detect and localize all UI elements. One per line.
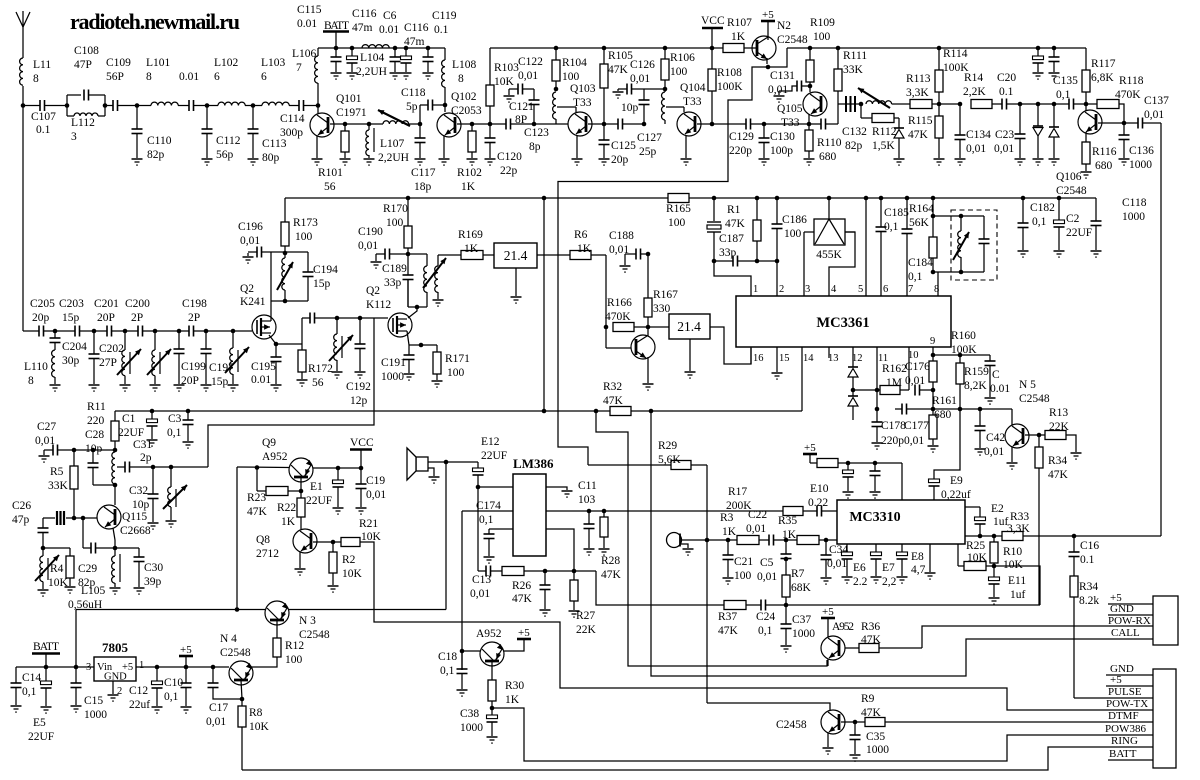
node Q105 collector (808, 84, 813, 89)
ground R161 (928, 445, 939, 447)
svg-text:C186: C186 (782, 214, 807, 226)
svg-text:1000: 1000 (84, 709, 107, 721)
svg-text:C190: C190 (358, 226, 383, 238)
dashed box quad tank (951, 210, 997, 280)
capacitor C137 (1124, 122, 1138, 124)
svg-text:47K: 47K (608, 64, 629, 76)
ground mixer transistor (643, 383, 654, 385)
ground E11 (989, 597, 1000, 599)
wire Q104 emitter to ground (685, 135, 687, 158)
svg-text:L101: L101 (146, 57, 171, 69)
node source (419, 343, 424, 348)
svg-text:0,01: 0,01 (206, 716, 226, 728)
svg-text:1,5K: 1,5K (872, 140, 895, 152)
node C42 (978, 407, 983, 412)
ground C 0.01 (985, 397, 996, 399)
node K112 drain (415, 305, 420, 310)
svg-text:0,1: 0,1 (167, 427, 182, 439)
resistor R172 (301, 318, 303, 350)
svg-text:0,22uf: 0,22uf (941, 489, 971, 501)
wire y261 (714, 260, 733, 262)
node C37 (784, 603, 789, 608)
transistor Q9 (289, 458, 313, 482)
svg-text:R17: R17 (728, 486, 747, 498)
svg-text:22UF: 22UF (118, 427, 144, 439)
svg-text:N 3: N 3 (299, 615, 316, 627)
capacitor C16 (1073, 536, 1075, 552)
svg-text:C195: C195 (251, 361, 276, 373)
wire Q115 emitter (113, 528, 115, 540)
inductor L105 (114, 548, 116, 556)
svg-text:0,1: 0,1 (1056, 89, 1071, 101)
capacitor C202 to ground (93, 331, 95, 354)
capacitor C1 electrolytic (151, 411, 153, 419)
resistor R104 (554, 46, 559, 51)
capacitor C134 to ground (959, 104, 961, 135)
svg-text:470K: 470K (605, 311, 631, 323)
resistor R17 (783, 507, 803, 516)
node C32 (151, 465, 156, 470)
svg-text:C17: C17 (209, 702, 228, 714)
svg-text:C187: C187 (719, 233, 744, 245)
capacitor C42 to ground (979, 409, 981, 426)
ground Q102 (439, 158, 450, 160)
crystal C187 (712, 196, 717, 201)
svg-text:3: 3 (86, 662, 91, 673)
ground L105 (110, 587, 121, 589)
ground L110 (50, 384, 61, 386)
wire Q102 collector line (457, 123, 472, 125)
svg-text:R109: R109 (810, 17, 835, 29)
wire R29 chain x707 (706, 465, 708, 540)
svg-text:1K: 1K (505, 694, 520, 706)
node R11 bottom (113, 448, 118, 453)
wire to C109 (105, 105, 113, 107)
capacitor C182 (1021, 196, 1026, 201)
ground C35 (850, 754, 861, 756)
svg-text:6: 6 (261, 71, 267, 83)
ground C37 (781, 645, 792, 647)
svg-text:0,01: 0,01 (240, 235, 260, 247)
ground C197 (201, 384, 212, 386)
svg-text:47K: 47K (1048, 469, 1069, 481)
svg-text:56: 56 (324, 181, 336, 193)
ground L107 (364, 158, 375, 160)
svg-text:1K: 1K (464, 243, 479, 255)
svg-text:0,01: 0,01 (904, 435, 924, 447)
capacitor on rail x1054 (1052, 46, 1057, 51)
ground C125 (599, 158, 610, 160)
capacitor C10 (185, 667, 187, 683)
svg-text:22UF: 22UF (28, 731, 54, 743)
svg-text:100: 100 (668, 217, 686, 229)
svg-text:R4: R4 (50, 563, 64, 575)
variable inductor 233 (232, 331, 234, 348)
svg-text:BATT: BATT (33, 641, 59, 653)
svg-text:C6: C6 (383, 10, 397, 22)
svg-text:16: 16 (753, 353, 764, 364)
wire A952 emitter to R30 (491, 662, 493, 680)
node C3 (186, 409, 191, 414)
wire speaker to E12 (428, 461, 478, 463)
node N2 emitter (766, 65, 771, 70)
transistor Q105 (803, 92, 827, 116)
capacitor C192 to ground (359, 318, 361, 344)
svg-text:5: 5 (858, 284, 863, 295)
node Q106 base (1084, 102, 1089, 107)
ground C23 (1015, 158, 1026, 160)
node pin11 b (875, 407, 880, 412)
svg-text:C109: C109 (106, 57, 131, 69)
capacitor C176 (914, 385, 916, 396)
svg-text:C199: C199 (181, 361, 206, 373)
wire to R114 node (932, 103, 960, 105)
resistor R26 (502, 567, 524, 576)
resistor R170 (406, 196, 411, 201)
svg-text:0,1: 0,1 (758, 625, 773, 637)
resistor R103 (489, 48, 491, 85)
wire LM386 input vertical x462 (461, 511, 463, 670)
svg-text:R10: R10 (1003, 546, 1022, 558)
capacitor C107 (39, 100, 41, 111)
ground C3 (183, 441, 194, 443)
svg-text:680: 680 (934, 409, 952, 421)
ground R171 (432, 380, 443, 382)
wire 21.4 output east (537, 254, 606, 256)
svg-text:10K: 10K (494, 76, 515, 88)
node Q105 emitter (807, 122, 812, 127)
svg-text:0.1: 0.1 (36, 124, 51, 136)
ceramic filter 455K (827, 196, 832, 201)
node R102 (470, 122, 475, 127)
capacitor C118 (419, 105, 421, 124)
svg-text:L106: L106 (292, 48, 317, 60)
ground C116b (401, 72, 412, 74)
resistor R3 (737, 536, 759, 545)
svg-text:5p: 5p (406, 101, 418, 113)
svg-text:C127: C127 (637, 132, 662, 144)
svg-text:1K: 1K (731, 31, 746, 43)
ground 7805 (112, 681, 114, 694)
node R28 (602, 509, 607, 514)
crystal 3-bar (43, 517, 55, 519)
diode pin12 a (848, 366, 858, 368)
node R167 bottom (646, 325, 651, 330)
svg-text:C14: C14 (22, 672, 41, 684)
capacitor C20 (1001, 99, 1003, 110)
capacitor E11 electrolytic (993, 566, 995, 577)
ground C117 (415, 158, 426, 160)
capacitor C21 to ground (727, 540, 729, 555)
node R10 top (992, 534, 997, 539)
wire 21.4 box2 to pin16 (710, 327, 751, 364)
svg-text:L103: L103 (261, 57, 286, 69)
wire C13 feedback line (478, 570, 486, 572)
wire N3 base line (76, 609, 265, 611)
node R106 bottom (663, 87, 668, 92)
resistor R102 (471, 124, 473, 131)
ground 21.4 box2 (689, 339, 691, 371)
wire K241 drain riser (270, 252, 272, 316)
capacitor C2 electrolytic (1057, 196, 1062, 201)
svg-text:47P: 47P (74, 59, 92, 71)
ground C110 (132, 158, 143, 160)
node varcoil 233 (206, 330, 233, 332)
ground rail cap 2 (1049, 72, 1060, 74)
svg-text:21.4: 21.4 (504, 248, 528, 263)
svg-text:R159: R159 (964, 366, 989, 378)
wire TX audio base chain (596, 411, 827, 666)
wire E12 node down to C13 line (477, 487, 479, 571)
wire tank2 bottom (933, 271, 984, 273)
wire RING bottom line (242, 747, 1153, 770)
svg-text:C2: C2 (1066, 213, 1080, 225)
resistor R105 (602, 46, 607, 51)
ground C120 (485, 158, 496, 160)
capacitor C116 electrolytic (350, 46, 355, 51)
svg-text:R118: R118 (1119, 75, 1144, 87)
diode discriminator (894, 117, 899, 119)
node R159 bottom (958, 407, 963, 412)
wire RF line row1 (23, 105, 40, 107)
variable inductor 43 (42, 548, 44, 556)
svg-text:R116: R116 (1092, 146, 1117, 158)
transformer K112 tank (408, 253, 427, 255)
svg-text:455K: 455K (816, 249, 842, 261)
pad +5 lower (1106, 685, 1153, 687)
node C15 (74, 665, 79, 670)
capacitor E8 electrolytic (901, 544, 903, 552)
svg-text:10p: 10p (132, 499, 150, 511)
node C34 (824, 538, 829, 543)
wire A952 RX base (827, 659, 829, 666)
svg-text:22p: 22p (500, 165, 518, 177)
svg-text:L11: L11 (33, 59, 51, 71)
svg-text:47m: 47m (352, 22, 373, 34)
svg-text:R160: R160 (951, 330, 976, 342)
svg-text:BATT: BATT (1109, 748, 1137, 760)
resistor R167 (647, 254, 649, 298)
svg-text:E12: E12 (481, 436, 500, 448)
capacitor C119 on rail (426, 46, 431, 51)
node C134 (958, 102, 963, 107)
svg-text:C123: C123 (524, 127, 549, 139)
microphone (667, 533, 682, 548)
svg-text:R28: R28 (601, 555, 620, 567)
node diode 2 (1052, 102, 1057, 107)
ground E7 (871, 576, 882, 578)
svg-text:R32: R32 (603, 381, 622, 393)
node coil bottom (113, 483, 118, 488)
svg-text:VCC: VCC (350, 437, 374, 449)
svg-text:R113: R113 (906, 73, 931, 85)
wire POW-RX chain (922, 626, 1153, 648)
svg-text:R27: R27 (576, 610, 595, 622)
wire CALL chain x651 (651, 411, 1153, 676)
node diode junction (851, 388, 856, 393)
svg-text:0,01: 0,01 (984, 446, 1004, 458)
svg-text:R34: R34 (1079, 581, 1098, 593)
wire y409 east (933, 408, 1012, 410)
ground R101 (340, 158, 351, 160)
resistor R109 (808, 46, 813, 51)
wire TX injection path (208, 318, 374, 467)
node base C29 (81, 516, 86, 521)
svg-text:C: C (992, 369, 1000, 381)
diode clamp 1 (1037, 104, 1039, 126)
ground C119 (423, 72, 434, 74)
svg-text:3,3K: 3,3K (906, 87, 929, 99)
resistor R7 (785, 559, 787, 575)
ground R13 (1071, 452, 1082, 454)
svg-text:12p: 12p (350, 395, 368, 407)
svg-text:100: 100 (295, 231, 313, 243)
svg-text:2p: 2p (140, 452, 152, 464)
svg-text:C13: C13 (472, 574, 491, 586)
antenna (16, 12, 30, 27)
node C130 (762, 122, 767, 127)
capacitor C204 and inductor L110 (54, 331, 56, 338)
svg-text:POW386: POW386 (1105, 723, 1146, 735)
wire BATT main line (16, 666, 94, 668)
capacitor C203 (55, 330, 75, 332)
wire N3 collector to speaker line (289, 609, 447, 611)
node C204 (53, 329, 58, 334)
wire N2 collector (767, 36, 769, 40)
wire antenna vertical (22, 27, 24, 58)
wire N4 collector east (249, 666, 254, 668)
capacitor C198 (179, 330, 189, 332)
coil tap to Q104 (666, 106, 684, 108)
node C186 bottom (775, 259, 780, 264)
node VCC (710, 46, 715, 51)
capacitor C112 to ground (206, 106, 208, 130)
wire y605 east (786, 604, 1040, 606)
svg-text:1M: 1M (886, 377, 902, 389)
capacitor on rail x1038 electrolytic (1036, 46, 1041, 51)
svg-text:0,01: 0,01 (35, 435, 55, 447)
svg-text:C202: C202 (99, 343, 124, 355)
node C127 (642, 122, 647, 127)
ground C118b (1091, 250, 1102, 252)
svg-text:POW-TX: POW-TX (1106, 698, 1148, 710)
oscillator coil (553, 92, 556, 119)
svg-text:L110: L110 (24, 361, 48, 373)
ground C116 (347, 72, 358, 74)
ground varcoil 125 (120, 384, 131, 386)
svg-text:C12: C12 (129, 685, 148, 697)
svg-text:100: 100 (670, 66, 688, 78)
svg-text:C20: C20 (997, 72, 1016, 84)
svg-text:1000: 1000 (1122, 211, 1145, 223)
svg-text:5,6K: 5,6K (658, 454, 681, 466)
node squelch x544 (542, 409, 547, 414)
svg-text:C122: C122 (518, 56, 543, 68)
svg-text:R115: R115 (908, 115, 933, 127)
svg-text:0,01: 0,01 (366, 489, 386, 501)
ground C174 (484, 556, 495, 558)
wire x544 from row2 to squelch (543, 198, 545, 411)
svg-text:T33: T33 (573, 97, 592, 109)
resistor R117 (1085, 48, 1087, 70)
svg-text:PULSE: PULSE (1108, 686, 1142, 698)
svg-text:R110: R110 (817, 137, 842, 149)
resistor R34 8.2k (1070, 576, 1078, 597)
svg-text:0,01: 0,01 (518, 70, 538, 82)
svg-text:C137: C137 (1144, 95, 1169, 107)
svg-text:R171: R171 (445, 353, 470, 365)
svg-text:7: 7 (908, 284, 913, 295)
svg-text:E6: E6 (853, 562, 866, 574)
svg-text:C126: C126 (630, 59, 655, 71)
wire POW386 chain (492, 708, 1153, 761)
capacitor C18 to ground (461, 651, 463, 669)
node C12 (155, 665, 160, 670)
resistor R161 (932, 409, 934, 415)
capacitor C186 (775, 196, 780, 201)
svg-text:C115: C115 (297, 4, 322, 16)
svg-text:C135: C135 (1053, 75, 1078, 87)
capacitor C35 (854, 722, 856, 735)
node R114/R115 (937, 102, 942, 107)
resistor R9 (865, 718, 885, 727)
capacitor C125 to ground (603, 124, 605, 140)
svg-text:R162: R162 (882, 363, 907, 375)
resistor R33 (1002, 532, 1023, 541)
wire A952 base (462, 650, 480, 652)
wire squelch line y411 (115, 410, 610, 412)
svg-text:E7: E7 (882, 562, 895, 574)
svg-text:3: 3 (71, 131, 77, 143)
node C1 (150, 409, 155, 414)
capacitor C201 (94, 330, 107, 332)
ground R172 (297, 379, 308, 381)
svg-text:15: 15 (779, 353, 790, 364)
svg-text:8: 8 (458, 73, 464, 85)
capacitor C191 (408, 345, 410, 355)
node R10 bottom (992, 564, 997, 569)
svg-text:C118: C118 (401, 87, 426, 99)
wire LM386 output y511 (546, 510, 783, 512)
node R108 bottom (710, 122, 715, 127)
inductor L108 (444, 48, 446, 60)
wire switched +5 rail east (787, 47, 1086, 49)
node R1 bottom (755, 259, 760, 264)
svg-text:1000: 1000 (1129, 159, 1152, 171)
svg-text:0.01: 0.01 (179, 71, 199, 83)
wire R26 line to y605 (596, 571, 724, 605)
svg-text:+5: +5 (1110, 674, 1122, 686)
wire C137 down right edge (1160, 123, 1162, 536)
svg-text:C185: C185 (884, 207, 909, 219)
variable inductor 171 (170, 467, 172, 487)
ground diode 2 (1049, 158, 1060, 160)
svg-text:Q102: Q102 (451, 91, 477, 103)
svg-text:0.01: 0.01 (990, 383, 1010, 395)
svg-text:6: 6 (214, 71, 220, 83)
svg-text:47K: 47K (861, 634, 882, 646)
svg-text:82p: 82p (845, 140, 863, 152)
svg-text:20P: 20P (97, 312, 115, 324)
wire Q106 east (1098, 122, 1124, 124)
svg-text:C205: C205 (30, 298, 55, 310)
svg-text:E2: E2 (991, 503, 1004, 515)
inductor L102 (207, 105, 218, 107)
svg-text:E10: E10 (810, 483, 829, 495)
node C199 (155, 330, 179, 332)
wire to Q105 emitter node (764, 123, 809, 125)
ground E5 (41, 706, 52, 708)
